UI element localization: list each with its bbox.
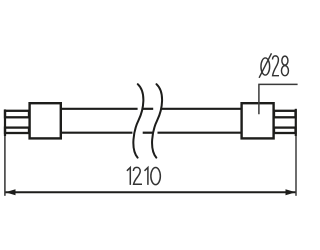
right bottom pin — [274, 128, 296, 133]
break wavy line 1 — [133, 84, 143, 157]
digit 8 — [282, 56, 288, 65]
tube body bottom line (right portion) — [158, 132, 243, 134]
tube body top line (right portion) — [161, 108, 243, 110]
digit 0 — [151, 168, 161, 185]
right arrowhead — [286, 189, 296, 195]
left top pin — [5, 111, 29, 118]
tube body bottom line (left portion) — [61, 132, 132, 134]
tube body top line (left portion) — [61, 108, 138, 110]
diameter text Ø28 — [259, 53, 288, 78]
left end plate — [4, 109, 6, 136]
left arrowhead — [5, 189, 15, 195]
break wavy line 2 — [152, 84, 162, 157]
diameter leader line — [258, 84, 297, 114]
glyph diameter sign — [261, 58, 270, 75]
right extension line — [295, 136, 297, 196]
left end cap — [30, 103, 61, 138]
tube body bottom line (between break) — [143, 132, 153, 134]
right end plate — [295, 109, 297, 136]
dimension text 1210 — [127, 167, 160, 185]
digit 1 — [127, 168, 130, 185]
digit 1 — [145, 168, 148, 185]
left bottom pin — [5, 128, 29, 133]
right top pin — [274, 111, 296, 118]
digit 2 — [273, 56, 280, 76]
digit 2 — [133, 167, 142, 184]
left extension line — [4, 136, 6, 196]
right end cap — [242, 103, 274, 138]
dimension line — [6, 191, 296, 193]
tube body top line (between break) — [142, 108, 153, 110]
